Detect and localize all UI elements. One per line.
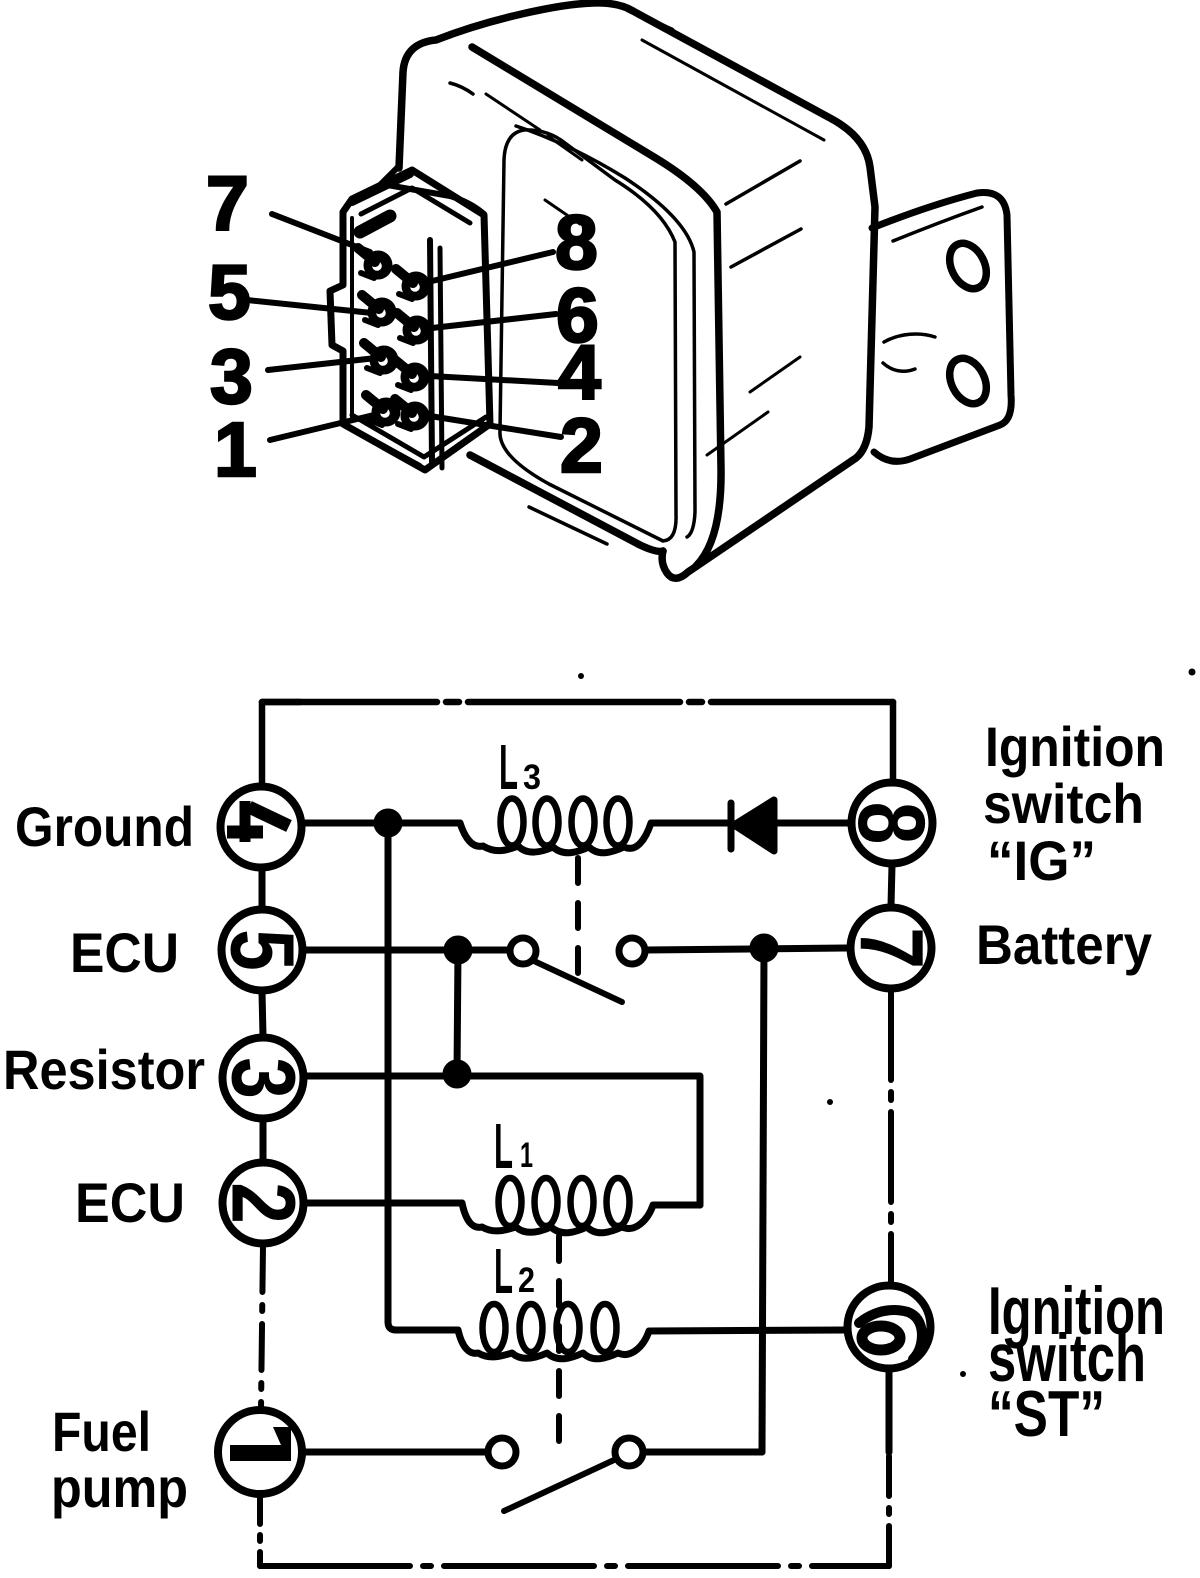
svg-text:1: 1 bbox=[520, 1136, 533, 1175]
svg-text:5: 5 bbox=[212, 929, 313, 971]
svg-text:L: L bbox=[499, 731, 518, 803]
svg-text:1: 1 bbox=[214, 407, 257, 493]
svg-text:Ground: Ground bbox=[15, 795, 194, 858]
svg-text:L: L bbox=[494, 1235, 513, 1307]
svg-text:“ST”: “ST” bbox=[988, 1377, 1105, 1450]
svg-text:L: L bbox=[494, 1110, 513, 1182]
svg-text:switch: switch bbox=[983, 772, 1144, 835]
svg-text:3: 3 bbox=[213, 1057, 314, 1099]
svg-text:Battery: Battery bbox=[976, 913, 1152, 976]
svg-text:Fuel: Fuel bbox=[52, 1400, 151, 1463]
svg-text:5: 5 bbox=[208, 250, 251, 336]
svg-text:3: 3 bbox=[523, 758, 541, 797]
svg-text:Ignition: Ignition bbox=[985, 715, 1165, 778]
svg-text:7: 7 bbox=[206, 161, 249, 247]
svg-text:8: 8 bbox=[838, 802, 944, 845]
svg-text:2: 2 bbox=[518, 1261, 535, 1300]
svg-text:ECU: ECU bbox=[70, 921, 179, 984]
svg-text:Resistor: Resistor bbox=[3, 1038, 205, 1101]
svg-text:2: 2 bbox=[213, 1182, 314, 1224]
svg-text:7: 7 bbox=[841, 927, 942, 969]
svg-text:2: 2 bbox=[560, 403, 603, 489]
svg-text:ECU: ECU bbox=[75, 1171, 185, 1234]
svg-text:pump: pump bbox=[51, 1456, 188, 1519]
svg-text:“IG”: “IG” bbox=[987, 829, 1096, 892]
